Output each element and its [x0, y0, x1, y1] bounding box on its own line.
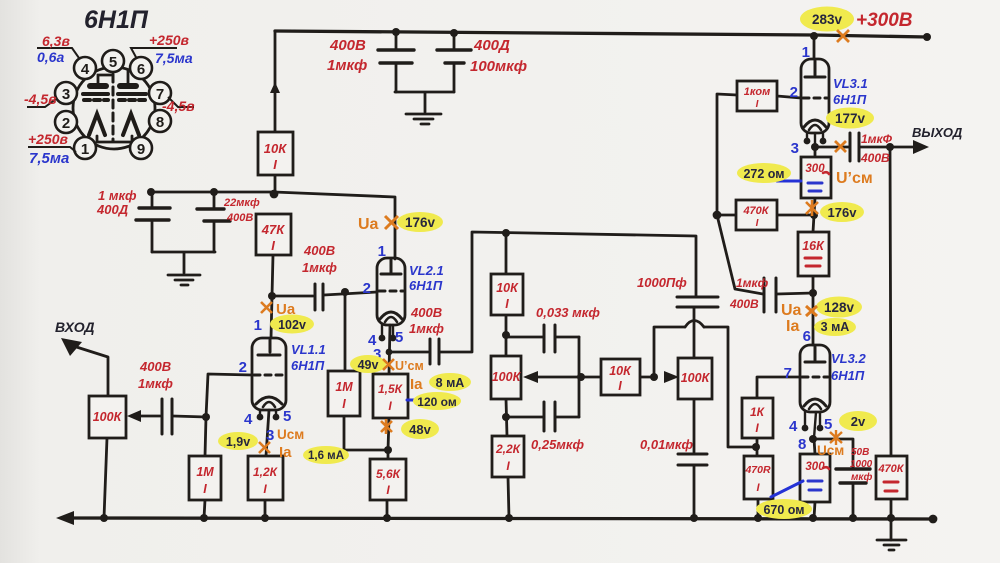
wire 10K to rail: [274, 175, 277, 193]
wire 1,5K to 48v node: [388, 418, 389, 459]
highlight 49v: [350, 355, 386, 373]
wire tone 10K top: [505, 233, 508, 274]
highlight 177v: [826, 108, 874, 129]
resistor 47K anode load VL1.1: [256, 214, 291, 255]
label x Ua VL1.1: [261, 302, 272, 313]
svg-text:300: 300: [805, 461, 825, 473]
svg-text:5: 5: [109, 54, 117, 71]
capacitor 100mkf 400V PSU plates: [437, 50, 471, 63]
resistor 1kOm grid stopper VL3.1: [737, 81, 777, 111]
svg-text:5: 5: [824, 416, 832, 433]
svg-text:1: 1: [81, 141, 89, 158]
resistor 470R: [744, 456, 773, 499]
wire input cap to grid node: [173, 416, 206, 417]
svg-text:5: 5: [395, 329, 403, 346]
svg-text:1 мкф: 1 мкф: [98, 188, 137, 203]
svg-text:177v: 177v: [835, 111, 866, 126]
svg-text:4: 4: [789, 418, 798, 435]
pinout leader lines: [27, 48, 194, 152]
svg-text:1мкф: 1мкф: [327, 57, 367, 74]
resistor 16K: [798, 232, 829, 276]
highlight 1,9v: [218, 432, 258, 450]
svg-text:8: 8: [798, 436, 806, 453]
resistor 1M grid VL1.1: [189, 456, 221, 500]
wire pot2 feed vertical and hop link: [654, 327, 756, 447]
wire VL2.1 cathode to out cap: [389, 351, 428, 354]
arrow output: [913, 140, 929, 154]
resistor 100K tone pot2: [678, 358, 712, 399]
wire pot1 wiper line: [535, 376, 601, 379]
pin circles 1-9: [55, 50, 171, 159]
wire filter cap2 leads: [213, 192, 216, 252]
svg-text:1К: 1К: [750, 405, 766, 419]
wire 0,033/0,25 right vertical: [578, 337, 581, 417]
svg-text:U’см: U’см: [395, 359, 424, 373]
wire VL3.1 cathode to 300ohm: [814, 147, 817, 157]
capacitor 1mkf 400D filter plates: [136, 208, 170, 220]
svg-text:120 ом: 120 ом: [417, 395, 457, 409]
wire grid stopper node vertical: [717, 94, 737, 215]
highlight 2v: [839, 411, 877, 431]
svg-text:1: 1: [378, 243, 386, 260]
wire 470K out to bottom rail: [890, 499, 893, 518]
svg-text:22мкф: 22мкф: [223, 197, 260, 209]
wire 1,2K to bottom rail: [264, 500, 267, 518]
wire B+ drop to 10K: [274, 31, 277, 132]
wire PSU caps bottom link: [395, 92, 454, 112]
svg-text:400В: 400В: [139, 359, 171, 374]
svg-text:6Н1П: 6Н1П: [84, 6, 149, 34]
svg-text:I: I: [273, 157, 277, 172]
svg-text:ВХОД: ВХОД: [55, 319, 95, 335]
svg-text:0,6а: 0,6а: [37, 49, 64, 65]
svg-text:1мкф: 1мкф: [302, 260, 337, 275]
resistor 1M grid VL2.1: [328, 371, 360, 416]
label x U'см VL2.1: [383, 359, 394, 370]
wire 0,25 leads: [506, 416, 579, 419]
svg-text:400В: 400В: [303, 243, 335, 258]
svg-text:3 мА: 3 мА: [821, 320, 850, 334]
svg-text:400В: 400В: [226, 212, 253, 224]
svg-text:283v: 283v: [812, 12, 843, 27]
svg-text:I: I: [618, 379, 622, 393]
capacitor 1000pF plates: [677, 297, 718, 307]
wire electrolytic to bottom rail: [852, 483, 855, 518]
highlight 176v right: [820, 202, 864, 222]
svg-text:102v: 102v: [278, 318, 306, 332]
wire 300ohm2 to bottom rail: [814, 502, 815, 518]
svg-text:470К: 470К: [877, 463, 904, 475]
wire out cap to tone rail: [440, 232, 696, 352]
resistor 300ohm cathode VL3.2: [800, 454, 830, 502]
highlight 272 ом: [737, 163, 791, 183]
arrow bottom rail left: [56, 511, 74, 525]
wire VL3.2 cathode to 300ohm2: [814, 439, 815, 454]
wire input pot to bottom rail: [104, 438, 107, 518]
svg-text:2,2К: 2,2К: [495, 442, 522, 456]
svg-text:+250в: +250в: [28, 131, 69, 147]
wire input jack diagonal: [67, 344, 108, 396]
triode VL3.2: [800, 345, 830, 438]
svg-text:I: I: [756, 218, 759, 229]
wire pot1 bottom to 2,2K: [506, 399, 507, 436]
mark red squiggle 300 VL3.1: [823, 172, 829, 174]
svg-text:+300В: +300В: [856, 10, 913, 31]
mark asterisk 176v node: [806, 200, 818, 216]
capacitor 0,033mkf plates: [544, 325, 555, 352]
capacitor 22mkf 400V filter plates: [197, 209, 230, 221]
mark red squiggle 300 VL3.2: [823, 467, 829, 469]
wire VL3.2 grid lead: [757, 377, 800, 398]
mark x VL1.1 cathode: [259, 442, 270, 453]
svg-text:1мкф: 1мкф: [736, 276, 769, 290]
svg-text:1,9v: 1,9v: [226, 435, 250, 449]
svg-text:8 мА: 8 мА: [436, 376, 465, 390]
svg-text:0,01мкф: 0,01мкф: [640, 437, 694, 452]
mark x VL3.2 cathode: [830, 430, 842, 445]
wire 1M to bottom rail: [204, 500, 205, 518]
svg-text:6Н1П: 6Н1П: [409, 278, 443, 293]
svg-text:3: 3: [62, 86, 70, 103]
ground PSU caps: [406, 114, 441, 124]
highlight 48v: [401, 419, 439, 439]
wire 1K to 470R node: [756, 438, 759, 456]
pointer 272 ом: [777, 180, 801, 183]
highlight 176v VL2.1: [397, 212, 443, 232]
svg-text:100К: 100К: [93, 410, 123, 424]
svg-text:400В: 400В: [860, 151, 890, 165]
svg-text:100К: 100К: [681, 371, 711, 385]
svg-text:1М: 1М: [196, 465, 214, 479]
mark red bars 16K: [805, 258, 821, 266]
mark blue bars 300 VL3.2: [808, 481, 822, 490]
wire output arrow lead: [890, 146, 918, 149]
svg-text:1000: 1000: [850, 459, 873, 470]
svg-text:2v: 2v: [851, 414, 866, 429]
capacitor 0,25mkf plates: [544, 402, 555, 431]
wire coupling cap2 to VL2.1 grid: [324, 292, 377, 295]
wire VL3.1 anode to bus: [813, 35, 816, 59]
svg-text:49v: 49v: [358, 358, 379, 372]
resistor 300ohm cathode VL3.1: [801, 157, 831, 198]
svg-text:3: 3: [791, 140, 799, 157]
svg-text:I: I: [505, 297, 509, 311]
svg-text:400В: 400В: [329, 37, 366, 54]
capacitor 0,01mkf plates: [678, 454, 707, 465]
svg-text:Ia: Ia: [279, 444, 292, 461]
svg-text:1,6 мА: 1,6 мА: [308, 450, 344, 462]
svg-text:6,3в: 6,3в: [42, 33, 70, 49]
svg-text:2: 2: [363, 280, 371, 297]
resistor 10K dropper: [258, 132, 293, 175]
svg-text:+250в: +250в: [149, 32, 190, 48]
resistor 470K output: [876, 456, 907, 499]
svg-text:I: I: [756, 99, 759, 110]
mark x VL3.1 cathode: [835, 141, 846, 152]
capacitor VL3.1 out 1mkf plates: [850, 133, 859, 161]
svg-text:Ua: Ua: [781, 302, 802, 319]
wire 470K fb leads: [717, 214, 814, 217]
capacitor VL2.1 out 1mkf plates: [430, 339, 439, 364]
pointer 670 ом: [771, 481, 803, 497]
highlight 3 мА: [814, 318, 856, 336]
highlight 120 ом: [413, 392, 461, 410]
wire out cap to output node: [860, 146, 890, 149]
svg-text:8: 8: [156, 114, 164, 131]
wire hop arc over pot2 wire: [685, 321, 704, 328]
mark asterisk 48v node: [381, 419, 392, 434]
wire 1M g2 bottom to 48v node: [344, 416, 388, 450]
wire VL1.1 anode: [271, 296, 272, 338]
svg-text:VL3.1: VL3.1: [833, 76, 868, 91]
svg-text:400В: 400В: [410, 305, 442, 320]
mark red bars 470K out: [884, 482, 898, 491]
resistor 470K feedback: [736, 200, 777, 230]
capacitor input 1mkf plates: [162, 399, 172, 434]
svg-text:48v: 48v: [409, 422, 431, 437]
svg-text:5: 5: [283, 408, 291, 425]
wire 47K to anode node: [272, 255, 273, 296]
wire tone 10K bottom to pot1: [505, 315, 508, 356]
wire 5,6K to bottom rail: [386, 500, 389, 518]
svg-text:VL1.1: VL1.1: [291, 342, 326, 357]
svg-text:I: I: [271, 238, 275, 253]
svg-text:10К: 10К: [496, 281, 519, 295]
svg-text:7,5ма: 7,5ма: [29, 150, 69, 167]
svg-text:Ua: Ua: [358, 216, 379, 233]
svg-text:10К: 10К: [264, 141, 287, 156]
svg-text:400Д: 400Д: [473, 37, 510, 54]
wire +300V top bus: [275, 31, 927, 37]
highlight 283v: [800, 7, 854, 32]
wire filter caps bottom link: [152, 252, 215, 273]
svg-text:10К: 10К: [609, 364, 632, 378]
svg-text:176v: 176v: [828, 205, 858, 220]
svg-text:400Д: 400Д: [96, 202, 129, 217]
svg-text:1,2К: 1,2К: [253, 465, 279, 479]
svg-text:-4,5в: -4,5в: [162, 98, 195, 114]
wire screen rail y193: [151, 192, 395, 259]
wire fb diagonal to 1mkf cap: [717, 215, 763, 294]
arrow pot2 wiper: [664, 371, 679, 383]
svg-text:4: 4: [244, 411, 253, 428]
svg-text:7,5ма: 7,5ма: [155, 50, 193, 66]
pinout envelope circle: [73, 67, 155, 149]
svg-text:I: I: [342, 397, 346, 411]
svg-text:6: 6: [137, 61, 145, 78]
svg-text:VL2.1: VL2.1: [409, 263, 444, 278]
svg-text:Ia: Ia: [410, 376, 423, 393]
wire 300ohm to 176v node: [814, 198, 815, 215]
wire output node down: [890, 147, 891, 456]
wire 2,2K to bottom rail: [508, 477, 509, 518]
wire VL2.1 grid node to 1M g2: [344, 292, 347, 371]
highlight 670 ом: [756, 499, 812, 519]
resistor 10K tone top: [491, 274, 523, 315]
svg-text:6Н1П: 6Н1П: [291, 358, 325, 373]
svg-text:6Н1П: 6Н1П: [833, 92, 867, 107]
svg-text:2: 2: [790, 84, 798, 101]
svg-text:-4,5в: -4,5в: [24, 91, 57, 107]
svg-text:3: 3: [266, 427, 274, 444]
svg-text:1,5К: 1,5К: [378, 382, 404, 396]
svg-text:1: 1: [254, 317, 262, 334]
svg-text:U’см: U’см: [836, 170, 873, 187]
wire VL3.1 cathode node: [815, 146, 849, 149]
arrow current mark on B+ drop: [270, 82, 280, 93]
svg-text:1М: 1М: [335, 380, 353, 394]
svg-text:1мкф: 1мкф: [409, 321, 444, 336]
wire grid node up to VL1.1 grid: [206, 374, 252, 417]
svg-text:2: 2: [62, 115, 70, 132]
svg-text:6Н1П: 6Н1П: [831, 368, 865, 383]
svg-text:0,25мкф: 0,25мкф: [531, 437, 585, 452]
svg-text:272 ом: 272 ом: [743, 167, 784, 181]
svg-text:100К: 100К: [492, 370, 522, 384]
wire anode node to coupling cap2: [272, 295, 313, 298]
arrow input: [61, 338, 82, 356]
mark x on bus at 283v: [837, 30, 849, 42]
svg-text:Uсм: Uсм: [277, 427, 304, 442]
svg-text:100мкф: 100мкф: [470, 58, 527, 75]
wire 0,01 cap to bottom rail: [693, 466, 696, 518]
wire pot2 bottom to 0,01 cap: [693, 399, 696, 452]
svg-text:176v: 176v: [405, 215, 436, 230]
ground filter caps: [168, 275, 200, 285]
svg-text:1: 1: [802, 44, 810, 61]
svg-text:0,033 мкф: 0,033 мкф: [536, 305, 600, 320]
wire 470R to bottom rail: [757, 499, 760, 518]
svg-text:7: 7: [784, 365, 792, 382]
wire VL2.1 cathode down: [389, 325, 390, 374]
svg-text:47К: 47К: [261, 222, 285, 237]
capacitor electrolytic 1000mkf plates: [836, 469, 870, 483]
arrow pot1 wiper: [523, 371, 538, 383]
wire VL1.1 cathode to 1,2K: [266, 410, 269, 456]
ground bottom right: [877, 540, 906, 550]
svg-text:50В: 50В: [851, 447, 869, 458]
capacitor fb 1mkf plates: [764, 278, 776, 312]
wire PSU cap2 leads: [453, 33, 456, 92]
resistor 1K grid VL3.2: [742, 398, 773, 438]
internal dual-triode symbol: [83, 71, 146, 142]
svg-text:6: 6: [803, 328, 811, 345]
capacitor interstage 1mkf plates: [315, 284, 323, 310]
wire 0,033 leads: [506, 336, 579, 339]
wire filter cap1 leads: [151, 192, 154, 252]
arrow input pot wiper: [127, 410, 141, 422]
highlight 128v: [816, 297, 862, 318]
triode VL3.1: [801, 59, 829, 147]
svg-text:ВЫХОД: ВЫХОД: [912, 125, 963, 140]
wire input pot wiper lead: [138, 415, 160, 418]
resistor 10K tone mid: [601, 359, 640, 395]
svg-text:470R: 470R: [744, 464, 771, 476]
resistor 100K input pot: [89, 396, 126, 438]
wire 1kOm to VL3.1 grid: [777, 96, 801, 98]
resistor 1,2K cathode VL1.1: [248, 456, 283, 500]
highlight 1,6 мА: [303, 446, 349, 464]
wire 16K to VL3.2 anode: [812, 276, 815, 345]
svg-text:128v: 128v: [824, 300, 855, 315]
wire grid node down to 1M: [205, 417, 206, 456]
capacitor 1mkf 400V PSU plates: [378, 50, 414, 63]
resistor 1,5K cathode VL2.1: [373, 374, 408, 418]
svg-text:16К: 16К: [802, 239, 825, 253]
wire fb cap to anode node: [777, 293, 813, 294]
svg-text:1мкФ: 1мкФ: [861, 132, 893, 146]
resistor 5,6K: [370, 459, 406, 500]
triode VL2.1: [377, 258, 405, 335]
svg-text:VL3.2: VL3.2: [831, 351, 866, 366]
svg-text:Ia: Ia: [786, 318, 799, 335]
resistor 2,2K: [492, 436, 524, 477]
svg-text:5,6К: 5,6К: [376, 467, 402, 481]
wire 10K out to pot2 wiper: [640, 376, 654, 379]
pointer 120 ом: [407, 399, 415, 402]
svg-text:4: 4: [81, 61, 90, 78]
svg-text:Uсм: Uсм: [817, 443, 844, 458]
wire PSU cap1 leads: [395, 32, 398, 92]
svg-text:670 ом: 670 ом: [763, 503, 804, 517]
highlight 102v: [270, 315, 314, 334]
svg-text:Ua: Ua: [276, 301, 296, 318]
svg-text:1000Пф: 1000Пф: [637, 275, 687, 290]
wire 176v node to 16K: [813, 215, 814, 232]
svg-text:470К: 470К: [742, 205, 769, 217]
wire bottom rail: [61, 518, 933, 519]
resistor 100K tone pot1: [491, 356, 521, 399]
svg-text:400В: 400В: [729, 297, 759, 311]
wire ground stem right: [890, 518, 893, 540]
svg-text:I: I: [203, 482, 207, 496]
mark blue bars 300 VL3.1: [808, 183, 822, 191]
svg-text:2: 2: [239, 359, 247, 376]
wire VL3.2 cathode node to electrolytic: [814, 439, 853, 469]
svg-text:1ком: 1ком: [744, 86, 771, 98]
wire 1000pF bottom to pot2: [693, 307, 696, 358]
svg-text:9: 9: [137, 141, 145, 158]
highlight 8 мА: [429, 373, 471, 391]
svg-text:мкф: мкф: [851, 471, 872, 483]
triode VL1.1: [252, 338, 286, 414]
svg-text:1мкф: 1мкф: [138, 376, 173, 391]
